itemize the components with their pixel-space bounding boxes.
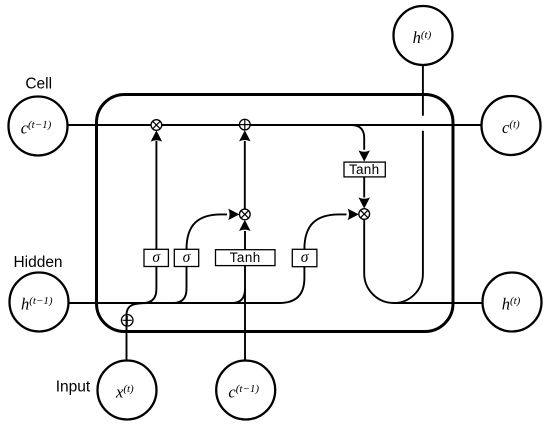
- node: otimes3 output gate multiply: [359, 209, 370, 220]
- circle: c(t-1) left: [9, 97, 68, 156]
- circle: h(t-1) left: [10, 273, 69, 332]
- wire: sigma3 curve to otimes3 arrow: [304, 214, 346, 249]
- wire: sigma2 curve to otimes2 arrow: [187, 214, 228, 249]
- wire: Tanh1 up to otimes2 arrow: [244, 231, 246, 250]
- wire: cell state line c(t-1) to c(t): [68, 124, 482, 126]
- wire: fillet into sigma1: [143, 267, 156, 304]
- wire: sigma1 to otimes1 arrow: [155, 141, 157, 249]
- box: Tanh1: [216, 250, 276, 266]
- wire: fillet into Tanh1: [232, 289, 245, 303]
- wire: fillet up from h out line toward h(t) top: [394, 131, 423, 303]
- box: sigma2: [174, 249, 198, 267]
- node: otimes2 input gate multiply: [239, 209, 250, 220]
- circle: x(t) bottom: [98, 361, 157, 420]
- wire: otimes3 down, U-turn, out to h(t) right: [364, 219, 482, 303]
- LSTM cell body rounded rectangle: [97, 95, 454, 332]
- svg-text:σ: σ: [183, 249, 192, 266]
- svg-text:Input: Input: [56, 379, 91, 396]
- wire: cell line branch down into Tanh2 arrow: [351, 125, 364, 150]
- wire: fillet into sigma2: [173, 267, 187, 304]
- svg-text:Cell: Cell: [25, 76, 52, 93]
- svg-text:Tanh: Tanh: [349, 162, 379, 177]
- wire: Tanh2 down to otimes3 arrow: [363, 177, 365, 198]
- node: oplus input join on x wire: [121, 315, 133, 327]
- circle: h(t) right: [483, 273, 542, 332]
- wire: x(t) up, join hidden line: [127, 303, 149, 361]
- wire: otimes2 to oplus arrow: [244, 141, 246, 209]
- node: otimes1 forget gate multiply: [151, 120, 162, 131]
- node: oplus cell add: [239, 119, 250, 130]
- circle: h(t) top: [394, 6, 453, 65]
- svg-text:σ: σ: [152, 249, 161, 266]
- circle: c(t-1) bottom: [216, 361, 275, 420]
- box: sigma1: [144, 249, 168, 267]
- box: Tanh2: [344, 162, 385, 177]
- svg-text:σ: σ: [301, 249, 310, 266]
- box: sigma3: [292, 249, 317, 267]
- wire: c(t-1) bottom up into Tanh1: [244, 266, 246, 361]
- wire: h(t) top segment above cell line gap: [422, 66, 424, 116]
- circle: c(t) right: [482, 96, 541, 155]
- wire: hidden line h(t-1) into sigma3: [69, 267, 305, 303]
- svg-text:Tanh: Tanh: [230, 250, 261, 265]
- svg-text:Hidden: Hidden: [13, 254, 62, 271]
